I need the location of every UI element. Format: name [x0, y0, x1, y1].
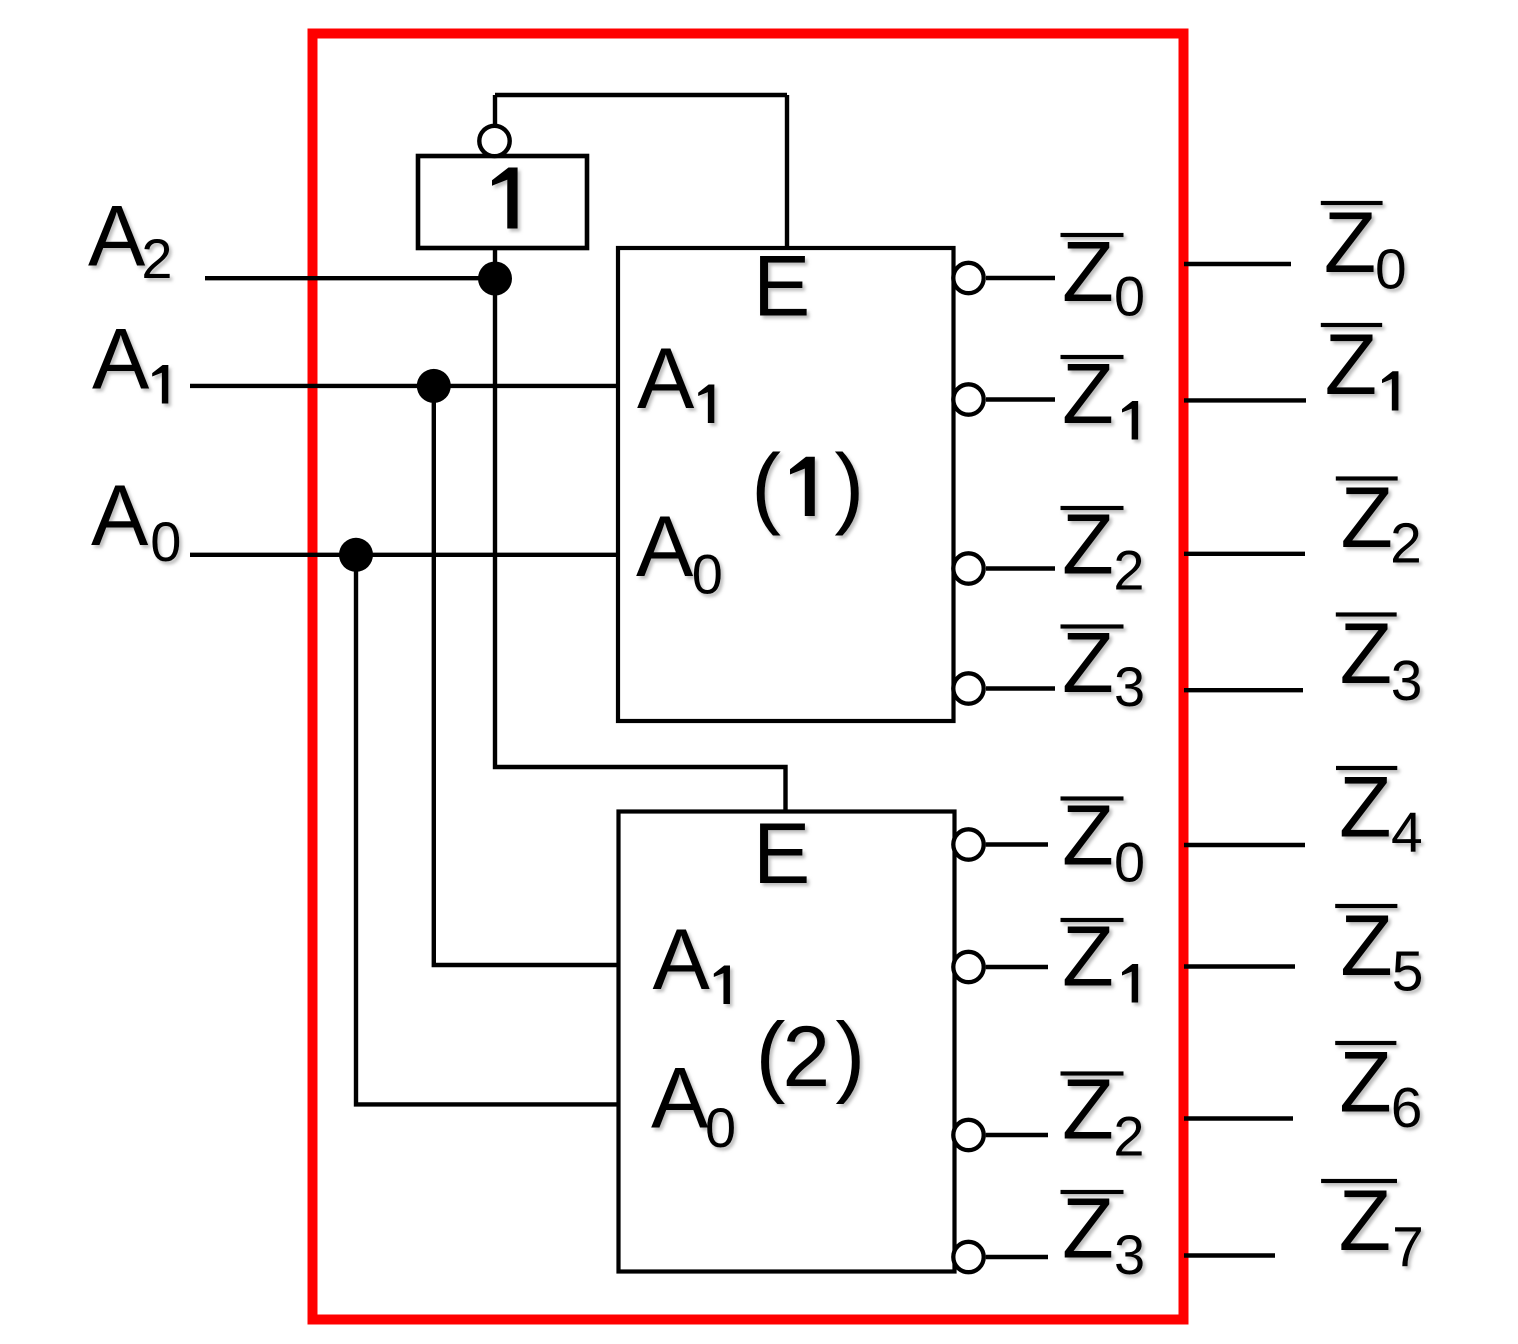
svg-text:2: 2 [1113, 538, 1144, 601]
svg-text:E: E [753, 806, 810, 902]
svg-text:): ) [835, 1006, 865, 1106]
svg-text:Z: Z [1062, 789, 1114, 884]
svg-text:(: ( [751, 437, 781, 537]
svg-text:0: 0 [1114, 831, 1145, 894]
svg-text:5: 5 [1392, 939, 1424, 1003]
svg-text:3: 3 [1391, 649, 1423, 713]
svg-text:A: A [88, 189, 146, 285]
svg-text:E: E [753, 239, 810, 335]
svg-text:0: 0 [692, 543, 723, 606]
svg-text:0: 0 [150, 510, 181, 573]
svg-text:2: 2 [1390, 512, 1422, 576]
svg-text:Z: Z [1341, 470, 1394, 566]
svg-text:Z: Z [1325, 317, 1378, 413]
svg-text:Z: Z [1062, 616, 1114, 711]
svg-text:Z: Z [1062, 1182, 1114, 1277]
svg-text:A: A [92, 312, 150, 408]
svg-text:A: A [637, 331, 695, 427]
svg-text:0: 0 [1375, 238, 1407, 302]
svg-text:A: A [91, 468, 149, 564]
svg-text:Z: Z [1339, 760, 1392, 856]
svg-text:A: A [636, 499, 694, 595]
svg-text:A: A [653, 912, 711, 1008]
svg-text:2: 2 [1113, 1105, 1144, 1168]
svg-text:): ) [834, 437, 864, 537]
svg-text:2: 2 [782, 1009, 830, 1105]
svg-text:(: ( [756, 1006, 786, 1106]
svg-text:Z: Z [1062, 498, 1114, 593]
svg-text:Z: Z [1062, 910, 1114, 1005]
svg-text:A: A [651, 1051, 709, 1147]
svg-text:0: 0 [1114, 264, 1145, 327]
svg-text:2: 2 [141, 227, 172, 290]
svg-text:7: 7 [1392, 1216, 1424, 1280]
svg-text:Z: Z [1339, 1173, 1392, 1269]
svg-text:Z: Z [1340, 898, 1393, 994]
svg-text:0: 0 [705, 1096, 736, 1159]
svg-text:Z: Z [1062, 1063, 1114, 1158]
svg-text:6: 6 [1391, 1076, 1423, 1140]
svg-text:Z: Z [1062, 225, 1114, 320]
svg-text:Z: Z [1340, 606, 1393, 702]
svg-text:Z: Z [1062, 347, 1114, 442]
svg-text:3: 3 [1114, 655, 1145, 718]
svg-text:Z: Z [1339, 1035, 1392, 1131]
svg-text:3: 3 [1114, 1223, 1145, 1286]
svg-text:4: 4 [1391, 801, 1423, 865]
svg-text:Z: Z [1324, 195, 1377, 291]
